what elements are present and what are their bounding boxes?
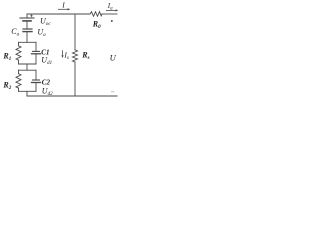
svg-text:U: U: [110, 53, 117, 63]
wire R1 top lead: [18, 42, 20, 46]
terminal dash bottom right: [111, 91, 114, 92]
wire Rs branch top: [74, 14, 76, 50]
wire R2 top lead: [18, 70, 20, 74]
node block1 bottom bar: [19, 63, 37, 65]
capacitor C1: [32, 51, 41, 53]
wire C1 top lead: [35, 42, 37, 51]
node block2 bottom bar: [19, 90, 37, 92]
resistor R1: [16, 46, 21, 60]
svg-text:I: I: [61, 0, 65, 9]
wire C1 bottom lead: [35, 54, 37, 64]
node block1 top bar: [19, 41, 37, 43]
wire battery to C_a: [26, 21, 28, 29]
wire top rail right segment: [102, 13, 117, 15]
battery U_OC: [20, 15, 34, 21]
current arrow I_a: [106, 9, 118, 11]
wire R2 bottom lead: [18, 88, 20, 91]
current arrow I: [58, 8, 70, 10]
wire block1 to block2: [26, 64, 28, 70]
wire bottom rail: [27, 95, 117, 97]
svg-text:C2: C2: [42, 79, 51, 87]
wire Rs branch bottom: [74, 62, 76, 96]
capacitor C_a: [23, 29, 32, 32]
wire top rail left segment: [27, 14, 90, 18]
wire C2 bottom lead: [35, 83, 37, 92]
node block2 top bar: [19, 69, 37, 71]
wire C2 top lead: [35, 70, 37, 80]
wire R1 bottom lead: [18, 60, 20, 64]
wire C_a to block1: [26, 32, 28, 43]
terminal dot top right: [111, 20, 113, 22]
resistor R2: [16, 74, 21, 88]
capacitor C2: [32, 80, 41, 83]
wire block2 to bottom rail: [26, 91, 28, 96]
resistor Rs: [73, 50, 78, 62]
current arrow I_s (down): [61, 50, 63, 58]
resistor R0: [90, 12, 102, 17]
